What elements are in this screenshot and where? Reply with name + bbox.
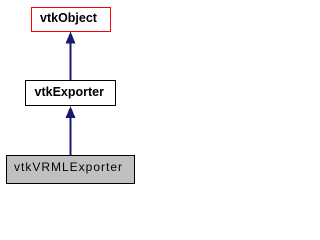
label vtkExporter <box>35 86 104 99</box>
class box vtkVRMLExporter <box>6 155 135 184</box>
class box vtkExporter <box>25 80 116 106</box>
label vtkObject <box>40 12 97 25</box>
label vtkVRMLExporter <box>14 161 123 174</box>
inheritance arrow vtkVRMLExporter to vtkExporter : wire <box>70 116 72 155</box>
inheritance arrow vtkExporter to vtkObject : arrowhead <box>66 32 76 44</box>
inheritance arrow vtkExporter to vtkObject : wire <box>70 42 72 80</box>
inheritance arrow vtkVRMLExporter to vtkExporter : arrowhead <box>66 106 76 118</box>
class box vtkObject <box>31 7 111 32</box>
